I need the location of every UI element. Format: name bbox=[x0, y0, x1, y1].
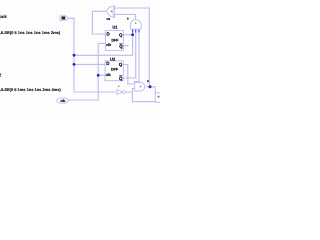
svg-text:Q: Q bbox=[119, 76, 123, 81]
wire clk branch to U2 clk input bbox=[98, 74, 105, 76]
XOR gate U3 (mirrored, output left) bbox=[106, 6, 114, 18]
wire inverter output bbox=[125, 91, 132, 93]
wire U1 Q output to junction bbox=[123, 34, 132, 36]
svg-text:clk: clk bbox=[106, 73, 111, 77]
svg-text:DFF: DFF bbox=[111, 38, 119, 42]
wire A5 output junction to output box upper pin bbox=[147, 87, 156, 93]
wire U2 Qbar output up to A4 input2 bbox=[123, 32, 135, 79]
wire clock-port to Q1 rail (node Q1) bbox=[69, 18, 118, 92]
D flip-flop U2 bbox=[105, 56, 123, 81]
AND gate A4 (pointing up) bbox=[130, 20, 141, 30]
wire XOR top input from A5 output rail bbox=[115, 8, 150, 87]
D flip-flop U1 bbox=[105, 25, 123, 51]
junction Q1 rail to U2 D bbox=[73, 63, 76, 66]
wire clk riser from clk tag to U1 clk input bbox=[69, 43, 105, 100]
svg-text:U2: U2 bbox=[110, 56, 116, 61]
svg-text:Q: Q bbox=[119, 62, 123, 67]
wire U2 Q output to A5 input1 bbox=[123, 65, 134, 84]
wire A4 input3 down to A5 top edge bbox=[135, 32, 139, 83]
svg-text:clk: clk bbox=[106, 43, 111, 47]
wire inverter net down to output box lower pin bbox=[132, 89, 155, 102]
wire U1 Qbar open stub bbox=[123, 45, 127, 47]
net tag clk bbox=[57, 98, 69, 103]
svg-text:Q: Q bbox=[119, 32, 123, 37]
wire XOR output to U1 D input bbox=[92, 11, 106, 34]
svg-text:clock: clock bbox=[0, 14, 7, 19]
junction Q1-rail / A4 input1 bbox=[131, 33, 134, 36]
inverter A6 bbox=[117, 86, 125, 95]
svg-text:Q: Q bbox=[119, 44, 123, 49]
A4 dark input pin stubs bbox=[133, 29, 139, 32]
wire XOR bottom input from A4 output bbox=[115, 14, 136, 19]
wire inverter net to A5 input2 bbox=[132, 88, 134, 90]
svg-text:U1: U1 bbox=[112, 25, 118, 30]
svg-text:DFF: DFF bbox=[111, 68, 119, 72]
input port flag (clock) bbox=[60, 16, 69, 21]
junction clk riser to U2 clk bbox=[97, 74, 100, 77]
output box (right edge, clipped) bbox=[155, 93, 160, 103]
svg-text:clk: clk bbox=[60, 99, 65, 103]
junction Q1 rail upper tap bbox=[73, 54, 76, 57]
svg-text:U3: U3 bbox=[107, 18, 111, 21]
svg-text:PULSE(0 5 1ms 1ns 1ns 2ms 4ms): PULSE(0 5 1ms 1ns 1ns 2ms 4ms) bbox=[0, 87, 61, 92]
svg-text:b: b bbox=[147, 79, 149, 83]
wire A4 input1 down to Q1 rail bbox=[74, 32, 133, 56]
wire Q1 rail branch to U2 D input bbox=[74, 63, 105, 65]
U1 Qbar stub arrowhead bbox=[127, 45, 129, 47]
svg-text:PULSE(0 5 1ns 1ns 1ns 1ms 2ms): PULSE(0 5 1ns 1ns 1ns 1ms 2ms) bbox=[0, 30, 61, 35]
junction A5 output node bbox=[149, 85, 152, 88]
AND gate A5 (pointing right) bbox=[135, 82, 145, 91]
